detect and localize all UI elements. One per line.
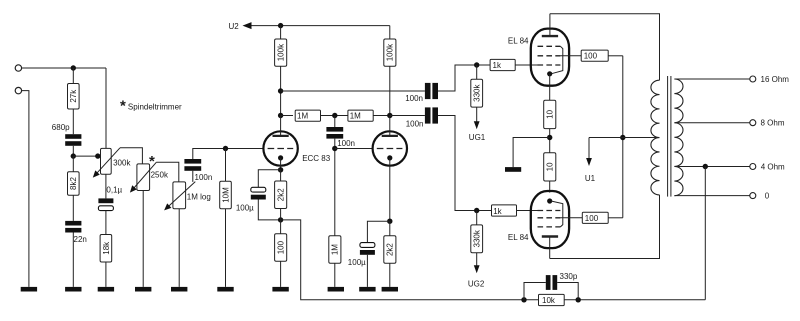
transformer primary winding	[651, 80, 660, 195]
svg-text:100n: 100n	[195, 173, 213, 182]
wire node D to 100n	[334, 116, 336, 128]
wire 330p branch	[524, 283, 578, 300]
wire input top to 300k	[22, 67, 106, 69]
wire 1M log to ground	[178, 209, 180, 287]
svg-text:330k: 330k	[473, 229, 482, 247]
wire 22n to ground	[72, 233, 74, 287]
svg-text:100: 100	[277, 240, 286, 254]
transformer core	[668, 76, 671, 197]
node grid V1b junction	[332, 146, 337, 151]
potentiometer 1M log	[164, 182, 211, 211]
wire cap1 to grid network	[438, 65, 490, 91]
V1a grid	[268, 148, 294, 150]
resistor 1M left	[281, 110, 321, 121]
svg-text:18k: 18k	[102, 241, 111, 255]
resistor 10M	[220, 149, 232, 209]
resistor 100 screen top	[581, 50, 608, 61]
resistor 10 bottom	[544, 153, 556, 181]
node cathode V1b	[387, 219, 392, 224]
EL84-1 g3 and internal tie	[538, 46, 563, 74]
star mark for 250k	[149, 153, 155, 170]
node anode V1a	[278, 88, 283, 118]
svg-text:250k: 250k	[151, 170, 169, 179]
resistor 2k2 (V1a)	[275, 170, 287, 209]
capacitor 680p	[52, 123, 82, 146]
node anode V1b	[387, 113, 392, 118]
wire 4 Ohm tap	[674, 166, 749, 168]
pentode EL84 bottom envelope	[531, 191, 569, 248]
arrow UG2	[474, 253, 480, 274]
wire 100k to anode node	[280, 66, 282, 115]
svg-text:100k: 100k	[277, 43, 286, 61]
capacitor 22n	[65, 221, 87, 244]
svg-text:EL 84: EL 84	[508, 233, 529, 242]
transformer secondary winding	[674, 79, 683, 196]
wire 100µ2 to ground	[366, 255, 368, 287]
wire input bottom	[22, 91, 29, 287]
svg-text:U1: U1	[585, 174, 596, 183]
capacitor 100µ (V1a)	[236, 187, 266, 212]
V1a cathode	[278, 155, 283, 170]
svg-text:10: 10	[546, 109, 555, 118]
terminal 4 Ohm	[750, 162, 785, 171]
node A junction	[71, 65, 76, 70]
wire cap2 to grid network	[438, 116, 492, 211]
resistor 27k	[68, 68, 80, 109]
ground G4	[135, 287, 151, 292]
wire 1M vert to ground	[334, 263, 336, 287]
svg-text:27k: 27k	[69, 89, 78, 103]
wire 1k to EL84 g1 bottom	[517, 210, 538, 212]
svg-text:8 Ohm: 8 Ohm	[761, 119, 785, 128]
wire 1k to EL84 g1	[515, 64, 537, 66]
label EL 84 top	[508, 37, 529, 46]
wire 0,1u to 18k	[105, 211, 107, 235]
svg-text:*: *	[120, 98, 126, 115]
wire 0 tap	[674, 195, 749, 197]
resistor 8k2	[68, 156, 80, 195]
node cathode V1a	[278, 167, 283, 172]
wire 18k to ground	[105, 262, 107, 287]
svg-text:100: 100	[585, 214, 599, 223]
ground G10	[382, 287, 398, 292]
capacitor 0,1µ	[98, 186, 122, 211]
svg-text:4 Ohm: 4 Ohm	[761, 162, 785, 171]
wire anode to coupling cap 1	[281, 90, 425, 92]
EL84-1 g2	[538, 55, 582, 57]
node G2 bottom junction	[474, 208, 479, 213]
arrow UG1	[474, 107, 480, 129]
EL84-1 anode	[542, 14, 558, 36]
svg-text:100µ: 100µ	[236, 203, 254, 212]
EL84-1 cathode	[547, 71, 552, 100]
resistor 10k	[539, 294, 565, 305]
node feedback tap	[703, 164, 708, 169]
label EL 84 bottom	[508, 233, 529, 242]
resistor 100k right	[384, 26, 396, 67]
trimmer 250k	[130, 162, 169, 192]
EL84-2 anode	[542, 237, 558, 259]
wire grid V1b	[335, 148, 373, 150]
wire cathode to 100µ	[258, 170, 280, 188]
svg-text:300k: 300k	[113, 159, 131, 168]
wire 250k to ground	[142, 191, 144, 287]
label U2	[229, 22, 240, 31]
resistor 1k bottom	[492, 205, 517, 216]
svg-text:UG2: UG2	[468, 280, 485, 289]
svg-text:2k2: 2k2	[386, 243, 395, 256]
node U2-100k junction	[278, 23, 283, 28]
wire 8k2 to 22n	[72, 195, 74, 221]
resistor 2k2 (V1b)	[384, 221, 396, 263]
ground G2	[65, 287, 81, 292]
node FB right	[576, 297, 581, 302]
svg-text:U2: U2	[229, 22, 240, 31]
wire 10M to ground	[225, 209, 227, 287]
node grid junction	[223, 146, 228, 151]
EL84-2 g3 and internal tie	[538, 201, 563, 227]
svg-text:100µ: 100µ	[348, 258, 366, 267]
wire 680p to node B	[72, 146, 74, 156]
node K junction	[547, 135, 552, 140]
svg-text:10M: 10M	[221, 187, 230, 203]
wire anode V1b to coupling cap 2	[390, 115, 425, 117]
svg-text:1M: 1M	[350, 112, 361, 121]
node FB left	[521, 297, 526, 302]
svg-text:100k: 100k	[386, 43, 395, 61]
terminal 16 Ohm	[750, 75, 789, 84]
wire anode2 to transformer	[550, 195, 660, 259]
wire down to 300k top	[105, 68, 107, 148]
label UG1	[469, 133, 486, 142]
capacitor 100µ (V1b)	[348, 243, 375, 268]
input terminal J2 (bottom)	[15, 87, 21, 93]
wire 2k2 to ground	[389, 263, 391, 287]
resistor 330k top	[471, 65, 483, 107]
svg-text:330p: 330p	[560, 272, 578, 281]
svg-text:8k2: 8k2	[69, 177, 78, 190]
label U1	[585, 174, 596, 183]
terminal 0	[750, 192, 770, 201]
label UG2	[468, 280, 485, 289]
node D junction	[332, 113, 337, 118]
V1b grid	[377, 148, 403, 150]
triode V1b envelope	[373, 131, 407, 165]
EL84-1 g1	[538, 64, 561, 66]
wire 100n to grid node	[193, 149, 264, 160]
svg-text:EL 84: EL 84	[508, 37, 529, 46]
svg-text:330k: 330k	[473, 84, 482, 102]
capacitor 100n coupling top	[405, 83, 438, 103]
wire 1M to node D	[321, 115, 348, 117]
resistor 100 (V1a)	[275, 209, 287, 262]
svg-text:0,1µ: 0,1µ	[106, 186, 122, 195]
label ECC 83	[302, 154, 331, 163]
wire 10 to EL84-2 cathode	[549, 181, 551, 193]
pentode EL84 top envelope	[531, 29, 569, 86]
wire 27k to 680p	[72, 109, 74, 134]
EL84-2 g2	[538, 217, 583, 219]
svg-text:0: 0	[765, 192, 770, 201]
svg-text:Spindeltrimmer: Spindeltrimmer	[128, 102, 182, 111]
wire 100n to grid V1b node	[334, 139, 336, 236]
node C junction	[278, 217, 283, 222]
EL84-2 g1	[538, 210, 561, 212]
node screen rail junction	[620, 135, 625, 140]
svg-text:1k: 1k	[493, 207, 502, 216]
arrow U2	[243, 22, 252, 29]
wire node K to ground	[513, 138, 550, 168]
resistor 1M right	[348, 110, 373, 121]
wire anode1 to transformer	[550, 14, 660, 81]
svg-text:2k2: 2k2	[277, 188, 286, 201]
wire cathode to 100µ 2	[367, 221, 389, 242]
wire 100k right to anode V1b	[389, 66, 391, 115]
svg-text:1M: 1M	[331, 244, 340, 255]
svg-text:10: 10	[546, 162, 555, 171]
svg-text:100n: 100n	[405, 94, 423, 103]
wire screen rail	[608, 56, 623, 218]
terminal 8 Ohm	[750, 119, 785, 128]
wire 100µ to node C	[258, 200, 280, 220]
resistor 330k bottom	[471, 211, 483, 253]
svg-text:22n: 22n	[74, 235, 87, 244]
V1b cathode	[387, 155, 392, 221]
svg-text:680p: 680p	[52, 123, 70, 132]
ground G7	[272, 287, 288, 292]
svg-text:100n: 100n	[406, 120, 424, 129]
resistor 18k	[100, 235, 112, 263]
ground G5	[171, 287, 187, 292]
wire 16 Ohm tap	[674, 78, 749, 80]
wire 8 Ohm tap	[674, 122, 749, 124]
EL84-2 cathode	[547, 198, 552, 203]
resistor 1k top	[490, 59, 515, 70]
wire center tap	[589, 137, 660, 139]
svg-text:1M: 1M	[297, 112, 308, 121]
wire 250k wiper to 1M log	[156, 162, 179, 182]
wire 300k to 0,1u	[105, 174, 107, 198]
wire feedback from node C	[281, 220, 706, 300]
wire 300k wiper to 250k	[120, 148, 142, 164]
resistor 100k left	[275, 26, 287, 67]
wire 1M to anode V1b	[373, 115, 390, 117]
wire 100 to ground	[280, 261, 282, 287]
resistor 1M vertical	[329, 236, 341, 263]
V1a anode	[273, 116, 289, 136]
wire node B to 300k wiper	[73, 153, 100, 158]
input terminal J1 (top)	[15, 65, 21, 71]
node G1 top junction	[474, 62, 479, 67]
wire 100n bottom to 1M log wiper	[192, 171, 194, 182]
capacitor 100n (divider)	[326, 127, 355, 148]
ground G1	[21, 287, 37, 292]
svg-text:100n: 100n	[337, 139, 355, 148]
ground G11 (cathode)	[505, 167, 521, 172]
ground G3	[98, 287, 114, 292]
wire 10 to node K	[549, 129, 551, 153]
svg-text:1k: 1k	[493, 61, 502, 70]
wire U2 rail	[252, 25, 390, 27]
capacitor 100n coupling bottom	[406, 107, 438, 128]
ground G6	[217, 287, 233, 292]
V1b anode	[382, 116, 398, 136]
svg-text:ECC 83: ECC 83	[302, 154, 331, 163]
node B junction	[71, 153, 76, 158]
resistor 100 screen bottom	[582, 212, 608, 223]
capacitor 330p	[546, 272, 578, 290]
capacitor 100n (grid)	[184, 159, 212, 182]
star legend mark	[120, 98, 126, 115]
triode V1a envelope	[263, 131, 297, 165]
arrow U1	[586, 138, 592, 167]
resistor 10 top	[544, 100, 556, 128]
ground G9	[359, 287, 375, 292]
wire feedback vertical	[704, 167, 706, 300]
svg-text:1M log: 1M log	[187, 193, 211, 202]
label Spindeltrimmer	[128, 102, 182, 111]
svg-text:UG1: UG1	[469, 133, 486, 142]
svg-text:10k: 10k	[542, 296, 556, 305]
trimmer 300k	[93, 148, 132, 178]
ground G8	[328, 287, 344, 292]
svg-text:16 Ohm: 16 Ohm	[761, 75, 790, 84]
svg-text:100: 100	[584, 52, 598, 61]
